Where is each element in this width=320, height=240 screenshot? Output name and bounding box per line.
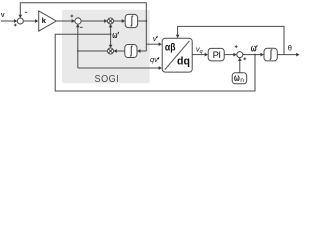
svg-text:ω: ω [112, 30, 117, 41]
integrator I3 [264, 48, 277, 61]
svg-text:PI: PI [213, 50, 221, 61]
omega_n block [232, 73, 247, 84]
wire PI to S3 [224, 54, 235, 56]
arrow into S2 [72, 19, 75, 23]
multiplier M1 [108, 18, 114, 24]
integrator I2 [125, 45, 137, 58]
arrow into S2 bottom [76, 24, 80, 27]
S2 minus [80, 26, 83, 28]
arrow theta output [296, 53, 299, 57]
arrow into ab beta input [159, 66, 162, 70]
arrow into M1 [104, 19, 107, 23]
wire J3 to I2 [139, 50, 147, 52]
arrow into PI [205, 53, 208, 57]
arrow into I3 [261, 53, 264, 57]
arrow into ab top [176, 35, 180, 38]
svg-text:θ: θ [288, 44, 292, 53]
wire theta feedback [178, 26, 284, 54]
svg-text:αβ: αβ [165, 42, 176, 53]
wire S1 to k [23, 20, 36, 22]
wire I3 to theta out [277, 54, 298, 56]
svg-text:v: v [153, 34, 158, 43]
omega' label right [251, 44, 257, 55]
arrow into M1 bottom [109, 24, 113, 27]
wire k to S2 [56, 20, 73, 22]
wire omega_n to S3 [239, 59, 241, 73]
S1 plus [14, 24, 17, 27]
svg-text:vq: vq [196, 45, 204, 55]
S3 plus bottom [243, 57, 246, 60]
svg-text:n: n [240, 77, 244, 84]
gain k triangle [39, 11, 57, 31]
wire input V to S1 [1, 20, 16, 22]
arrow into k [35, 19, 38, 23]
wire I1 to node J1 [138, 20, 147, 22]
qv' label [150, 55, 159, 64]
wire v' top feedback [20, 3, 146, 21]
arrow into S1 top [18, 15, 22, 18]
S2 plus [71, 15, 74, 18]
wire ab to PI (vq) [192, 54, 206, 56]
junction dots [145, 20, 147, 22]
arrow into ab alpha input [159, 42, 162, 46]
summing junction S2 [75, 18, 81, 24]
SOGI shaded box [62, 10, 150, 84]
S3 plus left [235, 45, 238, 48]
arrow into S3 [233, 53, 236, 57]
wire v' to ab block [146, 43, 160, 45]
PI block [208, 48, 224, 61]
arrow into M2 right [114, 49, 117, 53]
wire M1 to I1 [113, 20, 123, 22]
svg-text:V: V [1, 13, 5, 19]
wire omega' feedback loop [55, 34, 255, 91]
svg-text:dq: dq [177, 55, 190, 67]
integrator I1 [125, 14, 137, 27]
multiplier M2 [108, 48, 114, 54]
v' label [153, 34, 158, 43]
summing junction S3 [237, 52, 243, 58]
arrow into M2 top [109, 45, 113, 48]
arrowheads [14, 15, 300, 70]
omega' label in SOGI [112, 30, 118, 41]
arrow into S1 [14, 19, 17, 23]
wire M1-M2 vertical [110, 25, 112, 46]
arrow into I2 right [137, 49, 140, 53]
arrow into S3 bottom [238, 58, 242, 61]
wire M2 out to left [78, 50, 108, 52]
summing junction S1 [17, 18, 23, 24]
wire J1 down to J3 [145, 21, 147, 51]
ab/dq transform block [162, 38, 192, 72]
wire S2 to M1 [81, 20, 106, 22]
svg-text:SOGI: SOGI [95, 74, 120, 85]
wire qv' riser from beta line up to S2 minus [77, 25, 79, 68]
wire S3 to I3 [243, 54, 262, 56]
S1 minus [25, 11, 28, 13]
svg-text:ω: ω [251, 44, 257, 55]
svg-text:qv: qv [150, 55, 159, 64]
wire I2 to M2 [115, 50, 125, 52]
arrow into I1 [122, 19, 125, 23]
wire qv' beta line to ab block [78, 67, 160, 69]
